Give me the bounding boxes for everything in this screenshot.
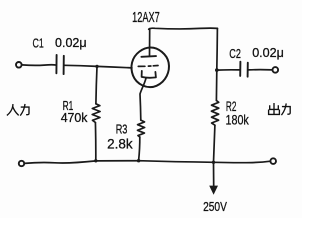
svg-text:0.02μ: 0.02μ (55, 35, 87, 50)
svg-text:R3: R3 (116, 122, 128, 137)
svg-text:R2: R2 (226, 98, 237, 114)
svg-text:12AX7: 12AX7 (132, 9, 160, 26)
svg-text:2.8k: 2.8k (107, 136, 133, 152)
svg-text:C2: C2 (229, 46, 241, 61)
svg-text:470k: 470k (61, 110, 88, 125)
svg-text:C1: C1 (33, 35, 44, 50)
svg-text:250V: 250V (203, 199, 227, 214)
svg-text:0.02μ: 0.02μ (252, 45, 284, 60)
svg-text:180k: 180k (226, 113, 250, 129)
